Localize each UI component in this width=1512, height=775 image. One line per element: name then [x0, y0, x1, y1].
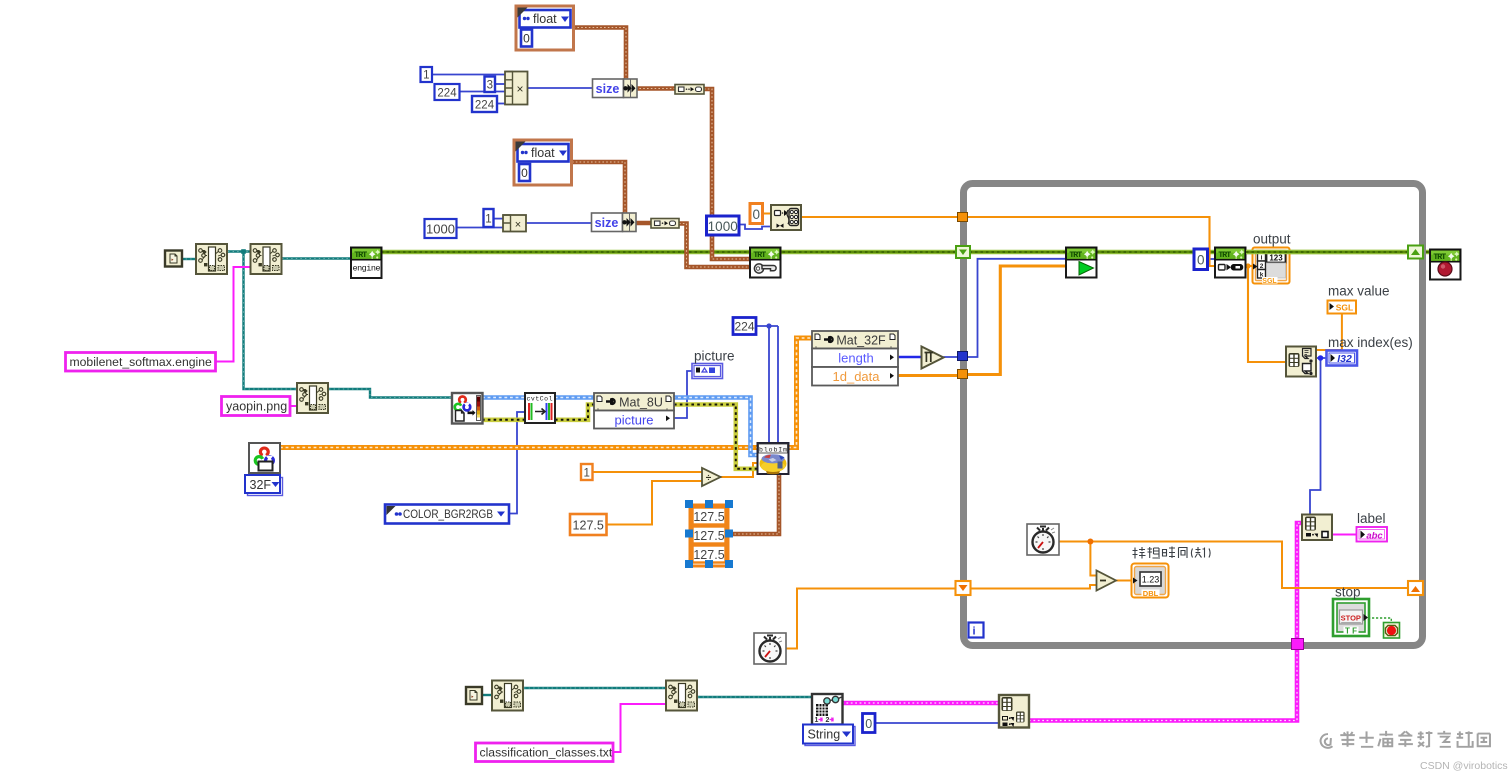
node: bundle 1 [675, 85, 704, 95]
wire: size2 to bundle2 (brown cluster) [635, 221, 651, 226]
node: 127.5 cluster constant selected [685, 500, 733, 568]
wire: 127.5 cluster to blobFromImage (brown) [731, 474, 779, 534]
node: numeric constant 1b [484, 209, 494, 227]
node: spreadsheet string to array [812, 694, 843, 725]
node: divide [702, 468, 721, 486]
node: numeric constant 224b [472, 96, 497, 112]
node: numeric constant 1 [421, 67, 433, 82]
label: 推理时间（秒） inference time [1133, 547, 1211, 559]
node: abc label indicator [1357, 527, 1388, 542]
node: TRT serialize engine [750, 248, 781, 278]
wire: Mat_32F 1d_data to tunnel to TRT run (orange array) [898, 266, 1066, 376]
node: 32F dropdown [245, 475, 283, 496]
wire: TRT get-output to output indicator and down to max-min (orange) [1245, 263, 1286, 362]
svg-text:CSDN @virobotics: CSDN @virobotics [1420, 760, 1508, 772]
tunnel: green shift register left [956, 246, 970, 258]
tunnel: blue tunnel left [958, 352, 968, 361]
label: classification_classes.txt path constant [476, 743, 614, 762]
wire: imread Mat to cvtColor (yellow-black) [482, 417, 525, 422]
wire: index-array to abc label indicator (magenta) [1332, 534, 1356, 536]
svg-text:0: 0 [523, 32, 530, 46]
wire: const 224a to multiply1 (blue) [460, 91, 506, 93]
svg-text:0: 0 [752, 207, 760, 222]
svg-text:1d_data: 1d_data [833, 369, 881, 384]
svg-text:3: 3 [487, 80, 493, 92]
svg-text:engine: engine [353, 264, 381, 274]
wire: const 0c to index node (blue) [875, 722, 999, 724]
wire: const 127.5 to divide (orange) [606, 481, 702, 525]
svg-text:„: „ [815, 343, 817, 349]
node: TRT run inference [1066, 248, 1097, 278]
wire: subtract to DBL indicator (orange) [1116, 580, 1132, 582]
tunnel: orange input left (create tensor ref) [958, 213, 968, 222]
svg-text:label: label [1357, 511, 1386, 526]
svg-text:1: 1 [423, 70, 429, 82]
svg-text:mobilenet_softmax.engine: mobilenet_softmax.engine [70, 355, 212, 369]
svg-text:127.5: 127.5 [693, 548, 724, 562]
svg-text:i: i [972, 626, 975, 638]
wire: const 0 to TRT get-output (blue) [1208, 258, 1215, 260]
wire: subVI4 to subVI5 (teal) [524, 687, 666, 689]
wire: mobilenet path to subVI2 (magenta) [216, 267, 252, 362]
tunnel: magenta tunnel bottom [1292, 639, 1304, 650]
svg-text:1: 1 [583, 468, 589, 480]
svg-text:÷: ÷ [706, 473, 712, 484]
svg-text:127.5: 127.5 [693, 529, 724, 543]
svg-text:0: 0 [865, 717, 872, 731]
wire: Mat_32F length to multiply-array (blue) [898, 356, 921, 359]
wire: const 1b to multiply2 (blue) [493, 218, 503, 220]
wire: bundle1 to TRT serialize (brown cluster) [704, 89, 750, 259]
node: compound multiply 1 [505, 72, 528, 105]
svg-text:SGL: SGL [1262, 278, 1277, 285]
node: multiply array elements [922, 347, 944, 369]
node: float cluster constant 2 [514, 140, 572, 185]
node: cvtColor [525, 393, 555, 423]
node: OpenCV imread [452, 393, 483, 424]
svg-text:„: „ [666, 405, 668, 411]
node: compound multiply 2 [503, 215, 526, 232]
node: index array (in loop) [1302, 515, 1332, 541]
wire: float cluster1 to size1 (brown cluster) [574, 28, 626, 79]
wire: green reference over output indicator [1246, 250, 1407, 255]
node: subVI4 read classes file [492, 681, 523, 711]
wire: const 224b to multiply1 (blue) [497, 103, 505, 105]
wire: classification path to subVI5 (magenta) [613, 704, 666, 752]
node: tick count 2 (outside loop) [754, 633, 786, 664]
node: numeric constant 0 orange [750, 204, 763, 224]
tunnel: orange shift register left [956, 581, 971, 595]
wire: const 1 orange to divide [592, 471, 702, 473]
svg-text:size: size [596, 82, 620, 96]
svg-text:stop: stop [1335, 585, 1361, 600]
svg-text:Mat_32F: Mat_32F [836, 334, 886, 348]
wire: blobFromImage to Mat_32F (orange 2D chain) [788, 338, 812, 448]
wire: tick-count2 to left shift tunnel (orange) [785, 589, 958, 649]
svg-text:SGL: SGL [1336, 303, 1353, 313]
svg-text:0: 0 [1197, 253, 1205, 268]
wire: cvtColor to Mat_8U (yellow-black) [555, 405, 594, 420]
node: numeric constant 224a [435, 84, 460, 100]
svg-text:picture: picture [694, 349, 735, 364]
node: bundle 2 [651, 219, 679, 229]
wire: max-index to I32 and down to index-array (blue) [1310, 355, 1326, 514]
svg-text:1: 1 [815, 717, 819, 724]
node: STOP boolean button [1333, 599, 1369, 636]
iteration terminal i [969, 623, 984, 638]
label: mobilenet_softmax.engine path constant [66, 353, 216, 372]
node: size VI 2 [592, 213, 637, 232]
svg-text:224: 224 [437, 88, 457, 100]
svg-text:1: 1 [485, 214, 491, 226]
node: subVI5 read text [666, 681, 697, 711]
svg-text:float: float [533, 12, 557, 26]
node: float cluster constant 1 [516, 6, 574, 50]
node: SGL max value indicator [1328, 301, 1357, 314]
svg-text:abc: abc [1366, 531, 1383, 542]
node: index array (bottom) [999, 695, 1029, 728]
svg-text:224: 224 [734, 320, 754, 334]
wire: float cluster2 to size2 (brown cluster) [572, 162, 625, 213]
tunnel: orange shift register right [1408, 581, 1423, 595]
svg-text:picture: picture [614, 413, 653, 428]
svg-text:1.23: 1.23 [1142, 575, 1160, 585]
wire: index node to loop index-array (magenta thick) [1029, 523, 1302, 721]
label: yaopin.png path constant [222, 397, 291, 416]
wire: COLOR_BGR2RGB to cvtColor (blue) [509, 412, 525, 514]
svg-text:max index(es): max index(es) [1328, 335, 1413, 350]
node: loop condition terminal [1384, 623, 1400, 639]
wire: string array to index node (magenta thick) [842, 701, 999, 706]
node: subVI1 read engine file [196, 244, 227, 274]
svg-text:×: × [515, 219, 521, 231]
wire: const 3 to multiply1 (blue) [495, 83, 505, 85]
wire: Mat_8U picture to picture indicator (blue) [674, 371, 692, 418]
svg-text:T F: T F [1345, 627, 1357, 636]
svg-text:output: output [1253, 232, 1291, 247]
svg-text:×: × [516, 82, 523, 96]
wire: Mat_8U to blobFromImage (yellow-black) [674, 405, 758, 469]
node: numeric constant 0 blue [1194, 249, 1208, 270]
node: file constant 1 [165, 251, 182, 267]
node: output array indicator [1253, 248, 1290, 286]
svg-text:„: „ [890, 343, 892, 349]
svg-text:i: i [1261, 255, 1263, 262]
node: subtract [1097, 571, 1117, 591]
node: file constant 2 [466, 687, 482, 704]
node: subVI3 build path [297, 383, 328, 413]
wire: 32F type to blobFromImage (orange 2D chain) [280, 445, 758, 450]
svg-text:I32: I32 [1337, 353, 1352, 365]
node: numeric constant 1000 [425, 219, 457, 238]
wire: yaopin.png to subVI3 (magenta) [290, 405, 297, 407]
svg-text:2: 2 [1260, 263, 1264, 270]
node: String type dropdown [803, 725, 855, 746]
wire: multiply2 to size2 (blue) [526, 222, 592, 224]
svg-text:COLOR_BGR2RGB: COLOR_BGR2RGB [403, 509, 493, 521]
wire: const 1000b to create-tensor (blue) [739, 225, 771, 230]
wire: divide to blobFromImage (orange) [721, 463, 759, 477]
wire: imread u8 image to blobFromImage (lightblue chain) [482, 398, 758, 456]
svg-text:32F: 32F [250, 478, 272, 492]
svg-text:max value: max value [1328, 284, 1390, 299]
node: COLOR_BGR2RGB enum [385, 505, 509, 524]
wire: bundle2 to TRT serialize (brown cluster) [679, 224, 750, 268]
svg-text:float: float [531, 146, 555, 160]
wire: subVI5 to string-to-array (teal) [698, 696, 812, 698]
node: Mat_8U property node [594, 393, 674, 429]
node: tick count 1 (inside loop) [1027, 524, 1059, 555]
wire: const 224c branch to blobFromImage (blue) [756, 323, 778, 443]
wire: multiply-array to loop tunnel to TRT run (blue) [943, 259, 1066, 357]
node: picture indicator [692, 364, 723, 379]
svg-text:„: „ [597, 405, 599, 411]
node: OpenCV 32F type [249, 443, 280, 473]
wire: subVI2 to TRT engine (teal) [282, 257, 351, 259]
svg-text:123: 123 [1269, 254, 1283, 263]
node: numeric constant 127.5 [570, 514, 607, 535]
svg-text:blobIm: blobIm [759, 447, 787, 454]
node: numeric constant 0c [863, 714, 876, 733]
node: subVI2 load engine [251, 244, 282, 274]
wire: subVI1 to subVI2 (teal) [228, 250, 252, 252]
wire: left shift tunnel to subtract (orange) [971, 585, 1097, 589]
svg-text:Mat_8U: Mat_8U [619, 396, 663, 410]
node: TRT destroy [1430, 250, 1461, 280]
node: numeric constant 1 orange [581, 464, 593, 480]
wire: path file1 to subVI1 (teal) [181, 258, 196, 260]
wire: green engine reference main [381, 250, 1430, 255]
tunnel: green shift register right [1408, 246, 1423, 259]
svg-text:127.5: 127.5 [693, 510, 724, 524]
wire: const 0 orange to create-tensor [762, 213, 771, 215]
node: Mat_32F property node [812, 331, 898, 386]
node: DBL time indicator [1132, 564, 1169, 598]
wire: size1 to bundle1 (brown cluster) [636, 86, 675, 91]
node: TRT get output [1215, 248, 1246, 278]
while loop border [964, 184, 1423, 646]
svg-text:224: 224 [475, 100, 495, 112]
wire: STOP button to loop condition (green boolean dotted) [1368, 618, 1391, 623]
svg-text:2: 2 [826, 717, 830, 724]
tunnel: orange tunnel left (1d data) [958, 370, 968, 379]
node: TRT create tensor [771, 205, 801, 230]
svg-text:cvtCol: cvtCol [527, 396, 553, 403]
wire: file2 to subVI4 (teal) [481, 694, 492, 696]
svg-text:classification_classes.txt: classification_classes.txt [480, 746, 613, 760]
wire: const 1000 to multiply2 (blue) [457, 227, 503, 229]
svg-text:size: size [595, 216, 619, 230]
node: blobFromImage [758, 443, 789, 474]
node: numeric constant 3 [485, 77, 496, 93]
wire: tick-count1 to subtract and right tunnel (orange) [1059, 539, 1408, 589]
node: numeric constant 1000b [707, 216, 740, 235]
wire: max-min to SGL max value (orange) [1316, 313, 1342, 350]
node: TRT engine create [351, 248, 382, 279]
label: watermark juejin community [1321, 731, 1490, 748]
svg-text:String: String [808, 728, 841, 742]
node: array max min [1286, 347, 1316, 377]
svg-text:1000: 1000 [426, 222, 455, 237]
svg-text:yaopin.png: yaopin.png [226, 400, 287, 414]
svg-text:DBL: DBL [1143, 589, 1159, 598]
wire: teal branch down to subVI3 [241, 249, 297, 389]
svg-text:STOP: STOP [1341, 614, 1361, 623]
wire: subVI3 to imread (teal) [329, 389, 452, 398]
node: size VI 1 [593, 79, 638, 98]
node: I32 max index indicator [1327, 351, 1358, 366]
svg-text:length: length [838, 351, 873, 366]
wire: multiply1 to size1 (blue) [527, 87, 593, 89]
wire: const 1 to multiply1 (blue) [432, 74, 505, 76]
wire: create-tensor to tunnel to TRT get-output (orange) [801, 217, 1215, 266]
svg-text:1000: 1000 [708, 219, 738, 234]
svg-text:0: 0 [521, 166, 528, 180]
node: numeric constant 224c [733, 318, 756, 335]
svg-text:127.5: 127.5 [573, 519, 604, 533]
